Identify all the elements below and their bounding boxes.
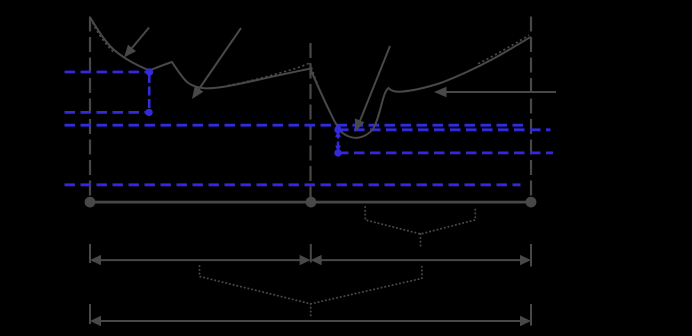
dotted brace between arrow rows bbox=[200, 266, 422, 318]
dashed vertical line x=531 (interval end t2) bbox=[530, 17, 532, 202]
interval arrow row 1: tick at x=311 bbox=[310, 244, 312, 263]
timeline node t2 bbox=[526, 197, 537, 208]
blue arrowhead down toward dot (338,152.9) bbox=[335, 146, 341, 152]
arrow 3 pointing to third curve minimum bbox=[355, 46, 390, 132]
interval arrow row 2: tick at x=90 bbox=[89, 304, 91, 324]
dotted approximation curve segment 3 (drop after x=310) bbox=[310, 63, 322, 95]
interval arrow row 2 span 90..531 bbox=[90, 316, 531, 326]
arrow 4 horizontal pointing to fourth curve bbox=[434, 87, 556, 97]
blue dashed level line y=152.9 bbox=[338, 151, 553, 154]
blue dashed level line y=129.8 from second dot pair bbox=[338, 128, 551, 131]
timeline node t0 bbox=[85, 197, 96, 208]
blue dot (338,129.6) bbox=[334, 126, 341, 133]
blue dashed level line y=72 (v(t0)) bbox=[65, 71, 150, 74]
dashed vertical line x=90 (interval start t0) bbox=[89, 17, 91, 202]
arrow 2 pointing to second curve bbox=[192, 28, 241, 99]
interval arrow row 2: tick at x=531 bbox=[530, 304, 532, 326]
arrow 1 pointing to first curve bbox=[124, 28, 149, 58]
blue arrowhead up toward dot (338,129.6) bbox=[335, 131, 341, 137]
timeline node t1 bbox=[306, 197, 317, 208]
blue dashed level line y=112.4 bbox=[65, 111, 150, 114]
solid cost curve U1: decay from (90,17) to min at blue dot, rise to cusp bbox=[90, 17, 531, 138]
timeline axis bbox=[90, 201, 531, 204]
blue dot (149.5,72) bbox=[146, 68, 153, 75]
blue dashed level line y=184.8 bbox=[65, 183, 521, 186]
blue dot (149,112.4) bbox=[145, 109, 152, 116]
dotted approximation curve segment 2 (rise to x=310) bbox=[228, 63, 310, 86]
dashed vertical line x=310.5 (interval boundary t1) bbox=[309, 43, 311, 201]
blue dashed vertical connector x=338 bbox=[337, 133, 339, 149]
interval arrow row 1 left span 90..311 bbox=[90, 255, 311, 265]
dotted approximation curve segment 1 (start of U1) bbox=[93, 23, 115, 53]
dotted brace under timeline (right of t1) bbox=[365, 207, 475, 246]
interval arrow row 1: tick at x=90 bbox=[89, 244, 91, 263]
blue dot (338,152.9) bbox=[334, 149, 341, 156]
blue dashed long level line y=125.2 bbox=[65, 124, 529, 127]
dotted approximation curve segment 4 (rise to x=528) bbox=[478, 35, 529, 64]
blue dashed vertical connector x=149 bbox=[148, 74, 151, 110]
interval arrow row 1: tick at x=531 bbox=[530, 244, 532, 267]
interval arrow row 1 right span 311..531 bbox=[311, 255, 531, 265]
